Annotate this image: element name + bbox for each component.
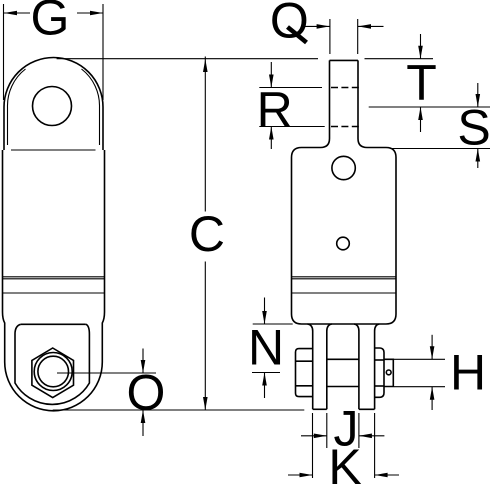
dimension J: extension left — [326, 413, 328, 448]
dimension Q: extension left — [329, 19, 331, 54]
svg-text:N: N — [248, 320, 284, 376]
left view: clevis inner contour (fillets and inner bottom arc) — [15, 324, 89, 404]
dimension Q: label tail stroke — [288, 27, 307, 43]
top reference line (C top, dome top to tab) — [57, 58, 318, 60]
right view: upper hole — [332, 156, 355, 179]
dimension T: arrow up — [420, 107, 422, 132]
right view: band double line upper — [292, 276, 397, 278]
dimension G: extension right — [102, 4, 104, 100]
right view: left prong outer edge with top fillet — [308, 324, 313, 409]
right view: right prong bottom — [359, 408, 375, 410]
dimension Q: extension right — [357, 19, 359, 54]
left view: eye hole circle — [33, 87, 72, 126]
dimension J: arrow left pointing right — [314, 434, 327, 439]
dimension C: line upper segment — [204, 57, 206, 212]
right view: bolt head facet line lower — [375, 385, 384, 387]
right view: band double line lower — [292, 278, 397, 280]
right view: tab left edge with fillet — [321, 60, 330, 147]
left view: nut inner circle — [38, 356, 69, 387]
left view: eye inner contour right flank — [82, 69, 100, 145]
dimension G: arrow left — [4, 11, 17, 16]
dimension T: bottom reference line — [369, 106, 490, 108]
svg-text:S: S — [457, 100, 490, 156]
dimension O: arrow down to leader — [142, 349, 144, 374]
left view: bottom outer arc — [5, 362, 103, 411]
dimension N: arrow down — [264, 298, 266, 325]
dimension K: arrow left pointing right — [300, 473, 313, 478]
dimension G: extension left — [3, 4, 5, 100]
dimension K: extension right — [374, 413, 376, 478]
left view: clevis shoulder line — [21, 323, 86, 325]
right view: band single line — [292, 292, 397, 294]
dimension J: arrow right pointing left — [359, 434, 372, 439]
right view: right prong inner edge with top fillet — [354, 324, 359, 409]
svg-text:O: O — [127, 365, 166, 421]
svg-text:T: T — [406, 55, 437, 111]
left view: eye outline (dome top and sides) — [4, 57, 103, 150]
right view: tab right edge with fillet — [358, 60, 367, 147]
left view: band double line upper — [3, 276, 105, 278]
right view: nut facet line upper — [296, 360, 313, 362]
dimension G: arrow right — [90, 11, 103, 16]
right view: nut facet line lower — [296, 385, 313, 387]
dimension Q: line right piece — [358, 25, 384, 27]
left view: band double line lower — [3, 278, 105, 280]
dimension N: bottom reference line — [252, 372, 280, 374]
dimension T: top reference line — [365, 58, 434, 60]
right view: right prong outer edge with top fillet — [375, 324, 380, 409]
right view: hidden dashed line lower across tab — [331, 126, 360, 128]
dimension H: arrow up — [431, 387, 433, 410]
dimension C: arrow up — [203, 59, 208, 72]
right view: bolt head facet line upper — [375, 359, 384, 361]
svg-text:H: H — [450, 345, 486, 401]
dimension J: line left piece — [301, 435, 327, 437]
left view: band single line — [3, 292, 105, 294]
dimension N: arrow up — [264, 373, 266, 399]
left view: hex nut — [32, 348, 74, 398]
svg-text:C: C — [189, 206, 225, 262]
dimension S: arrow down — [477, 83, 479, 107]
dimension R: top reference line — [259, 87, 322, 89]
dimension H: top extension line — [394, 358, 445, 360]
dimension S: bottom reference line — [390, 148, 490, 150]
right view: left prong inner edge with top fillet — [327, 324, 332, 409]
dimension N: top reference line — [253, 323, 293, 325]
dimension R: bottom reference line — [259, 126, 324, 128]
dimension S: arrow up — [477, 149, 479, 169]
right view: left prong bottom — [313, 408, 327, 410]
dimension K: line left piece — [288, 474, 313, 476]
svg-text:R: R — [257, 82, 293, 138]
left view: body right edge with taper into clevis — [102, 150, 104, 362]
dimension J: extension right — [358, 413, 360, 448]
dimension G: line left piece — [4, 12, 30, 14]
dimension R: arrow up — [270, 127, 272, 150]
left view: step line at eye/body junction — [11, 149, 96, 151]
dimension J: line right piece — [359, 435, 385, 437]
dimension Q: arrow right pointing left — [358, 24, 371, 29]
dimension H: arrow down — [431, 335, 433, 360]
svg-text:K: K — [328, 439, 361, 487]
dimension K: extension left — [312, 413, 314, 478]
dimension C: line lower segment — [204, 262, 206, 411]
right view: bolt pin end — [384, 359, 393, 386]
right view: tab top edge — [330, 59, 359, 61]
dimension H: bottom extension line — [394, 386, 445, 388]
dimension K: arrow right pointing left — [375, 473, 388, 478]
dimension O: arrow up to bottom line — [142, 410, 144, 436]
dimension G: line right piece — [77, 12, 103, 14]
svg-text:G: G — [31, 0, 70, 46]
dimension T: arrow down — [420, 34, 422, 59]
left view: body left edge with taper into clevis — [3, 150, 5, 362]
left view: O leader line from nut center — [57, 372, 156, 374]
dimension K: line right piece — [375, 474, 399, 476]
dimension Q: arrow left pointing right — [317, 24, 330, 29]
right view: hidden dashed line upper across tab — [331, 87, 360, 89]
right view: cotter pin hole — [386, 370, 391, 375]
right view: bolt shank bottom line between prongs — [327, 386, 359, 388]
left view: nut outer circle — [34, 353, 72, 391]
dimension R: arrow down — [270, 62, 272, 88]
right view: small hole — [337, 237, 350, 250]
dimension C: arrow down — [203, 397, 208, 410]
right view: bolt head right — [375, 348, 384, 397]
right view: body outline — [292, 148, 397, 325]
dimension Q: line left piece — [305, 25, 330, 27]
left view: eye inner contour left flank — [7, 69, 25, 145]
right view: bolt shank top line between prongs — [327, 358, 359, 360]
bottom reference line (C bottom) — [53, 409, 305, 411]
right view: hex nut on bolt left — [296, 349, 313, 397]
